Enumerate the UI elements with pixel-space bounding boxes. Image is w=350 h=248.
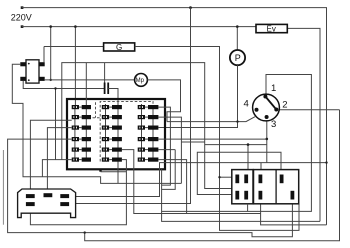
- wire col1 right chain: [85, 63, 87, 160]
- wire row1-col3 right lead down: [158, 107, 170, 185]
- wire row5-col3 right lead to connector top: [158, 149, 175, 151]
- wire left connector bottom stub: [247, 204, 249, 212]
- component connector block right: [254, 170, 299, 204]
- wire top line bottom return: [261, 204, 327, 225]
- wire L1 top supply line: [21, 6, 327, 225]
- wire connector pins loop: [197, 152, 281, 194]
- wire row5-col2 right lead down to connector stub: [122, 150, 261, 214]
- wire row2-col3 right lead down to col2 chain: [158, 117, 181, 183]
- wire 220V drop to program row1 col1: [74, 27, 76, 105]
- component connector block left: [232, 170, 253, 204]
- wire junction feed to right connector: [205, 144, 267, 146]
- wire row3-col1 left lead to plug pin2: [47, 128, 71, 194]
- wire row4-col3 right lead to switch rotor: [158, 138, 267, 140]
- wire P down to row3-col3: [158, 65, 237, 127]
- wire G right lead to x219.5 down: [135, 47, 299, 231]
- wire rectifier RT pad up to G line: [43, 47, 45, 63]
- circuit rotary selector switch: [244, 83, 288, 130]
- svg-text:4: 4: [244, 99, 249, 110]
- wire col2 right chain: [117, 105, 119, 183]
- wire switch contact4 lead diagonal: [167, 117, 255, 122]
- wire mid connector pin up: [260, 163, 262, 175]
- wire row6-col3 right lead down to bus: [158, 160, 186, 214]
- contacts col1 (rows 1-6): [72, 105, 91, 109]
- box G: [104, 43, 135, 52]
- wire row2-col1 left lead to plug pin1: [30, 120, 71, 194]
- wire rectifier left-bottom pad to capacitor: [23, 81, 104, 89]
- wire cap top plate to bus: [104, 63, 106, 83]
- svg-text:G: G: [116, 43, 122, 52]
- wire capacitor right lead down to row1-col2: [108, 89, 118, 106]
- wire Ev return via box bottom: [162, 169, 320, 221]
- wire col1 left chain: [74, 105, 76, 160]
- wire G left lead: [44, 46, 104, 48]
- dashed link small (row2): [88, 102, 100, 118]
- circuit P lamp: [230, 50, 245, 65]
- wire node bus y62.6 cap top to right: [62, 63, 232, 189]
- wire col3 right chain: [152, 106, 154, 160]
- svg-text:Mp: Mp: [136, 78, 145, 84]
- wire L2 second supply line: [21, 25, 256, 28]
- wire cap line drop to plug: [55, 89, 57, 160]
- wire switch rotor bottom: [266, 121, 268, 163]
- box program switch unit: [67, 99, 165, 169]
- wire stub link to col2 drop: [101, 171, 127, 173]
- wire row6-col2 right lead to plug pin: [30, 160, 126, 225]
- wire rectifier right-bottom pad to Mp: [45, 79, 135, 81]
- wire 220V drop to P lamp: [236, 27, 238, 50]
- wire switch-1 loop: [162, 75, 312, 212]
- node P-wire junction on contact4 lead: [236, 120, 238, 122]
- svg-text:1: 1: [271, 83, 276, 94]
- svg-text:220V: 220V: [11, 13, 32, 23]
- wire row5-col1 left lead perimeter to connector pin: [2, 150, 4, 225]
- wire col2 left chain: [105, 104, 107, 160]
- circuit Mp: [135, 74, 148, 87]
- wire 220V top to vertical x190 down to plug: [69, 8, 190, 204]
- wire 220V drop to rectifier: [50, 27, 52, 80]
- wire G-line branch to connector pin: [220, 176, 236, 178]
- wire row5-col3 hang link: [162, 150, 176, 190]
- box Ev: [256, 24, 287, 33]
- node top-line junction: [189, 6, 192, 9]
- wire row4-col1 left lead perimeter to switch contact2: [8, 139, 293, 237]
- wire link y142: [181, 141, 204, 143]
- svg-text:3: 3: [271, 119, 276, 130]
- wire col3 left chain: [141, 104, 143, 160]
- component plug connector bottom-left: [18, 189, 76, 218]
- wire thick stub below box: [99, 169, 101, 172]
- contacts col2: [102, 105, 122, 109]
- wire rectifier left-top pad loop to connector pin: [12, 64, 181, 183]
- wire Mp right lead down into box col3: [147, 80, 180, 122]
- svg-text:Ev: Ev: [267, 25, 276, 34]
- wire 220V-top return to plug pin3: [69, 163, 326, 197]
- capacitor C: [105, 83, 109, 95]
- wire Ev output to right edge: [287, 28, 320, 221]
- wire branch to switch contact2: [85, 110, 340, 241]
- contacts col3: [138, 105, 159, 109]
- dashed mechanical link main: [100, 102, 153, 162]
- svg-text:2: 2: [282, 100, 287, 111]
- svg-text:P: P: [235, 53, 241, 63]
- wire switch contact2 lead: [280, 109, 340, 111]
- wire row6-col1 left lead to plug top: [42, 160, 71, 177]
- component bridge rectifier: [20, 60, 44, 83]
